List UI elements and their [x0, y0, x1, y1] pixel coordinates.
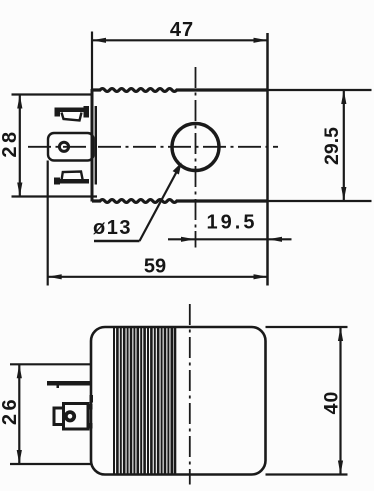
coil body (top view) top edge with knurled wavy section — [92, 89, 268, 92]
dimension 40 label (rotated) — [321, 391, 343, 415]
svg-text:40: 40 — [321, 391, 343, 415]
hole label o13 — [93, 217, 132, 239]
lower terminal tab (top view) — [54, 172, 89, 185]
dimension 28 label (rotated) — [0, 128, 21, 157]
spade terminal (bottom view) — [54, 404, 93, 430]
dimension 28 line — [17, 95, 22, 197]
connector pin hole circle — [59, 142, 68, 151]
connector flange face line (top view) — [95, 106, 97, 185]
coil body (bottom view) rounded outline — [91, 327, 266, 475]
dimension 19.5 line — [168, 237, 292, 242]
coil body (top view) bottom edge with knurled wavy section — [92, 200, 268, 203]
dimension 29.5 label (rotated) — [321, 127, 343, 165]
dimension 26 extension lines — [10, 364, 92, 464]
coil body (top view) left edge — [91, 89, 94, 202]
svg-text:47: 47 — [170, 19, 194, 41]
dimension 26 line — [17, 364, 22, 464]
dimension 26 label (rotated) — [0, 396, 21, 425]
dimension 59 label — [144, 256, 166, 278]
dimension 28 extension lines — [12, 95, 98, 197]
vertical centerline (top view) — [195, 67, 197, 248]
vertical centerline (bottom view) — [189, 304, 191, 485]
horizontal centerline (top view) — [28, 146, 278, 148]
connector plug body (top view) — [48, 133, 94, 161]
mark on body edge (bottom view) — [90, 395, 94, 403]
svg-text:59: 59 — [144, 256, 166, 278]
dimension 47 line — [92, 32, 268, 90]
dimension 29.5 line — [341, 90, 346, 201]
dimension 40 line — [338, 327, 343, 475]
dimension 59 line — [48, 274, 268, 279]
coil body (top view) right edge with dimension extensions — [266, 33, 269, 286]
svg-text:26: 26 — [0, 396, 21, 425]
dimension 29.5 extension lines — [268, 90, 372, 201]
hole circle diameter 13 — [172, 124, 219, 171]
dimension 40 extension lines — [266, 327, 348, 475]
dimension 59 extension line left — [47, 161, 49, 286]
svg-text:ø13: ø13 — [93, 217, 132, 239]
svg-text:19.5: 19.5 — [207, 212, 258, 234]
dimension 47 label — [170, 19, 194, 41]
svg-text:28: 28 — [0, 128, 21, 157]
dimension 19.5 label — [207, 212, 258, 234]
upper terminal pin (bottom view) — [47, 381, 92, 388]
ribbed section (bottom view) — [114, 328, 175, 474]
svg-text:29.5: 29.5 — [321, 127, 343, 165]
leader line for hole label — [94, 163, 182, 242]
upper terminal tab (top view) — [55, 106, 90, 121]
